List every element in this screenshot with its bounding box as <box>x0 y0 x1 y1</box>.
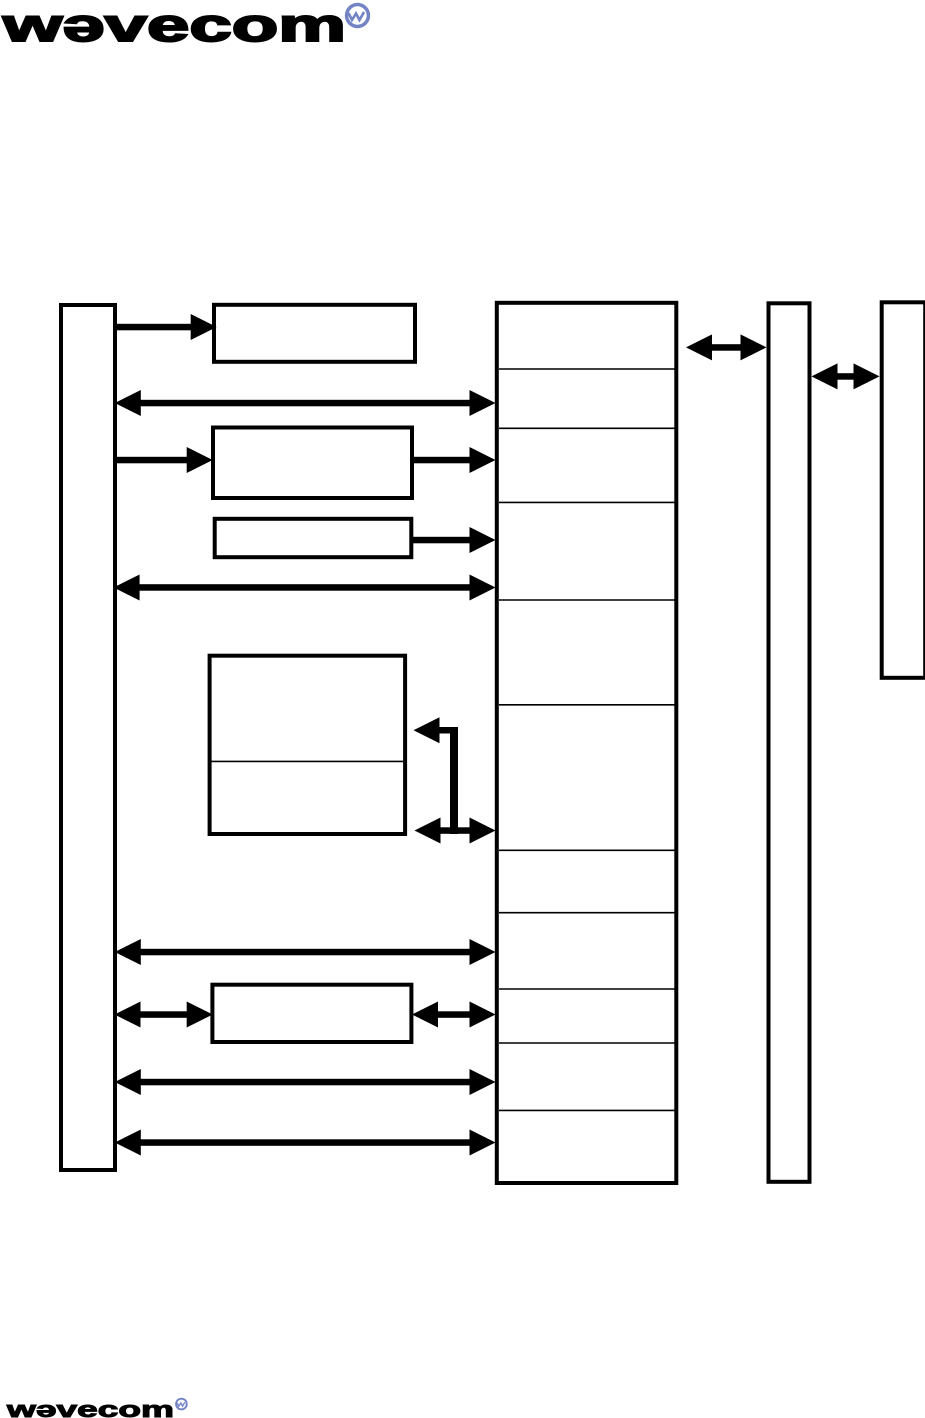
arrow: box5/column double <box>412 1002 496 1028</box>
box 5 <box>212 985 411 1042</box>
arrow: bar to box2 <box>117 447 213 473</box>
arrow: right-bar/far-bar double <box>812 363 880 389</box>
column divider 2 <box>499 427 675 429</box>
box 4 (large two-cell block) <box>210 656 406 834</box>
arrow: bar/box5 double <box>115 1002 213 1028</box>
connector: box4 upper feedback arm <box>414 717 459 743</box>
column divider 6 <box>499 849 675 851</box>
connector: box4/column double arrow <box>415 818 496 844</box>
column divider 3 <box>499 501 675 503</box>
arrow: bar to box1 <box>117 314 217 340</box>
column divider 9 <box>499 1042 675 1044</box>
right bus bar <box>769 303 810 1182</box>
svg-text:wəvecom: wəvecom <box>1 0 346 51</box>
column divider 8 <box>499 988 675 990</box>
column divider 10 <box>499 1109 675 1111</box>
connector: vertical link <box>450 727 458 834</box>
svg-text:wəvecom: wəvecom <box>5 1397 174 1418</box>
wavecom logo top registered circle <box>345 3 370 28</box>
column divider 1 <box>499 368 675 370</box>
arrow: bar/column double 5 <box>115 1130 496 1156</box>
arrow: box3 to column <box>413 527 496 553</box>
arrow: bar/column double 2 <box>114 575 496 601</box>
arrow: bar/column double 1 <box>115 390 496 416</box>
arrow: box2 to column <box>414 447 496 473</box>
wavecom logo bottom registered circle <box>175 1398 188 1411</box>
left bus bar <box>61 305 115 1170</box>
box 3 (thin block) <box>215 519 412 557</box>
column divider 7 <box>499 912 675 914</box>
column divider 4 <box>499 599 675 601</box>
middle register column <box>497 303 677 1183</box>
far right bar <box>882 302 925 678</box>
arrow: bar/column double 4 <box>115 1069 496 1095</box>
box 1 (top left block) <box>214 305 415 362</box>
column divider 5 <box>499 704 675 706</box>
arrow: bar/column double 3 <box>115 939 496 965</box>
box 4 divider <box>208 760 407 762</box>
arrow: column/right-bar double <box>686 334 767 360</box>
box 2 <box>213 428 412 499</box>
